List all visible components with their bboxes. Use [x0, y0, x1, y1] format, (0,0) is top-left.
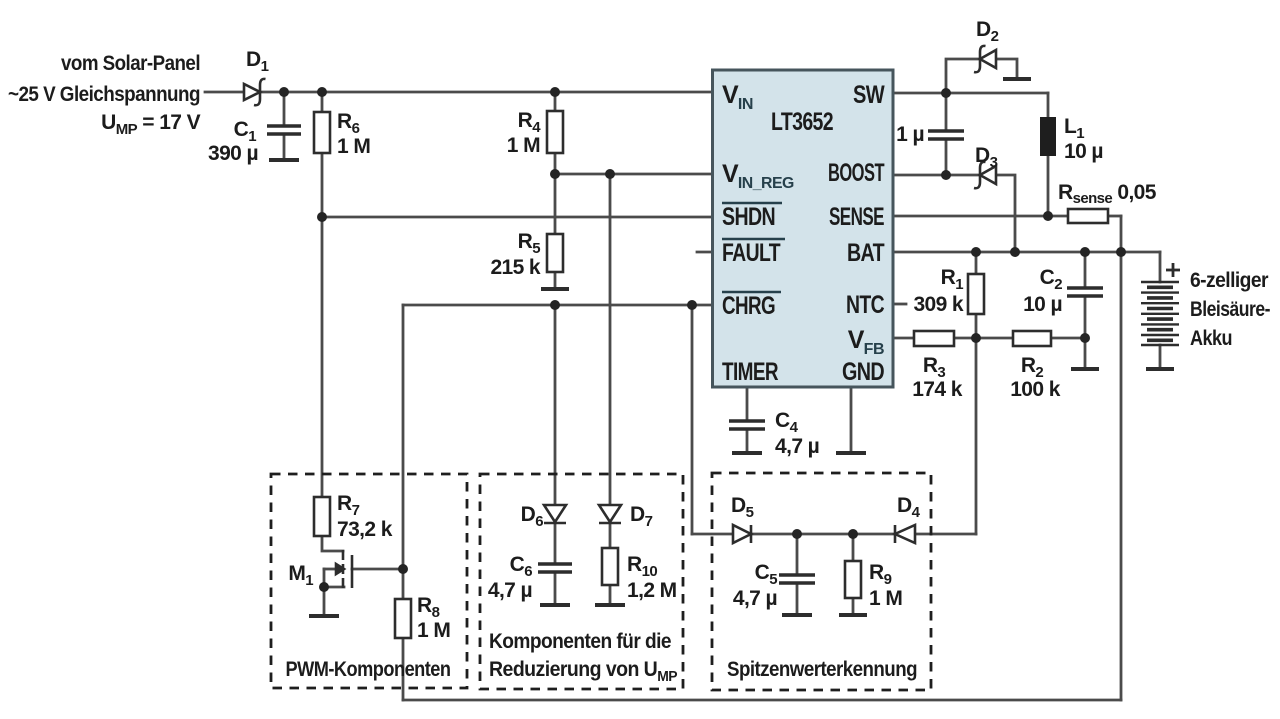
wire C6 bottom to ground: [554, 572, 557, 603]
svg-text:4,7 µ: 4,7 µ: [733, 587, 777, 610]
svg-text:Bleisäure-: Bleisäure-: [1190, 298, 1271, 321]
UMP reduction dashed box: [480, 474, 683, 689]
svg-text:1 M: 1 M: [869, 587, 902, 610]
svg-text:174 k: 174 k: [912, 378, 962, 401]
svg-text:10 µ: 10 µ: [1023, 293, 1062, 316]
wire VFB pin to R3: [893, 337, 914, 340]
wire C5 node down: [796, 534, 799, 575]
wire D7 cathode to R10: [609, 523, 612, 548]
wire node to C1 top: [283, 92, 286, 126]
battery 6-cell: [1141, 282, 1179, 345]
ground under R9: [839, 613, 867, 617]
IC U1 pin CHRG overline: [722, 291, 781, 293]
wire SW node up to D2: [946, 59, 980, 93]
wire D3 anode down to BAT line: [996, 175, 1015, 252]
wire M1 source: [324, 586, 344, 589]
wire C5 bottom to ground: [796, 583, 799, 613]
node C5 junction: [792, 529, 802, 539]
ground under C5: [782, 613, 812, 617]
ground under battery: [1146, 367, 1174, 371]
wire VIN_REG line to pin: [555, 173, 712, 176]
capacitor 1u bootstrap: [928, 131, 964, 139]
wire GND pin to ground: [850, 387, 853, 451]
IC U1 pin SHDN overline: [722, 202, 782, 204]
capacitor C4: [729, 421, 765, 429]
wire M1 gate to R8 node: [352, 568, 403, 571]
svg-text:215 k: 215 k: [490, 256, 540, 279]
capacitor C2: [1067, 288, 1103, 296]
wire BAT line: [893, 251, 1160, 254]
PWM components dashed box: [271, 474, 467, 688]
capacitor C5: [779, 575, 815, 583]
node solar input junction: [279, 87, 289, 97]
wire D6 cathode to C6: [554, 523, 557, 564]
wire Rsense right corner: [1108, 215, 1121, 218]
battery plus sign: [1166, 263, 1180, 277]
svg-text:~25 V Gleichspannung: ~25 V Gleichspannung: [8, 83, 200, 106]
wire R4 bottom to VIN_REG node: [554, 153, 557, 174]
wire D2 anode to ground: [996, 59, 1017, 77]
node SHDN R6 junction: [317, 212, 327, 222]
wire R1 bottom to VFB node: [975, 314, 978, 338]
wire SW node to bootstrap cap: [945, 93, 948, 131]
svg-text:1 M: 1 M: [337, 135, 370, 158]
resistor R4: [547, 111, 563, 153]
svg-text:FAULT: FAULT: [722, 239, 780, 267]
node CHRG D6 branch junction: [550, 300, 560, 310]
wire C2 bottom through R2 node to ground: [1084, 296, 1087, 367]
svg-text:Reduzierung von UMP: Reduzierung von UMP: [489, 658, 678, 685]
node BAT Rsense junction: [1116, 247, 1126, 257]
wire R8 node to R8 top: [402, 569, 405, 599]
svg-text:100 k: 100 k: [1010, 378, 1060, 401]
capacitor C6: [538, 564, 572, 572]
svg-text:TIMER: TIMER: [722, 358, 779, 386]
wire battery bottom to ground: [1159, 345, 1162, 367]
resistor Rsense: [1068, 209, 1108, 223]
resistor R5: [547, 234, 563, 272]
ground under C2: [1071, 367, 1099, 371]
diode D3 (schottky): [974, 162, 996, 188]
svg-text:10 µ: 10 µ: [1064, 140, 1103, 163]
node BAT D3 junction: [1010, 247, 1020, 257]
wire C1 bottom to ground: [283, 134, 286, 159]
node VFB R1 junction: [971, 333, 981, 343]
wire M1 body arrow line: [324, 568, 336, 571]
wire D1 cathode to VIN pin: [260, 91, 712, 94]
wire CHRG node down to D5: [691, 305, 694, 534]
transistor M1 (MOSFET): [336, 550, 352, 588]
resistor R1: [968, 274, 984, 314]
ground under GND pin: [836, 451, 866, 455]
svg-text:73,2 k: 73,2 k: [337, 518, 393, 541]
node R4 top junction: [550, 87, 560, 97]
ground for D2: [1003, 77, 1031, 81]
svg-text:SHDN: SHDN: [722, 203, 775, 231]
diode D1 (schottky): [244, 79, 266, 105]
wire FAULT stub: [697, 251, 712, 254]
svg-text:309 k: 309 k: [913, 293, 963, 316]
ground under R10: [595, 603, 625, 607]
svg-text:BOOST: BOOST: [828, 159, 884, 187]
wire SENSE line to Rsense: [893, 215, 1068, 218]
node CHRG D5 branch junction: [687, 300, 697, 310]
wire TIMER to C4: [746, 387, 749, 421]
ground under C6: [540, 603, 570, 607]
wire SW corner to L1: [1047, 93, 1050, 117]
IC U1 pin FAULT overline: [722, 238, 785, 240]
ground under C1: [269, 158, 299, 162]
wire bootstrap cap to BOOST node: [945, 139, 948, 175]
wire bottom rail up to Rsense and BAT node: [1120, 216, 1123, 700]
diode D5: [733, 525, 751, 543]
svg-text:1 M: 1 M: [507, 134, 540, 157]
svg-text:390 µ: 390 µ: [208, 142, 258, 165]
wire M1 body-source vertical to ground: [323, 569, 326, 614]
wire BAT node to R1 top: [975, 252, 978, 274]
resistor R3: [914, 331, 954, 346]
diode D2 (schottky): [974, 46, 996, 72]
wire D5 cathode to D4 anode: [751, 533, 895, 536]
wire CHRG corner down to M1 gate node: [402, 305, 405, 569]
wire M1 drain from R7: [322, 536, 343, 551]
svg-text:1 µ: 1 µ: [896, 123, 924, 146]
wire D5 line from CHRG drop: [692, 533, 733, 536]
wire R10 bottom to ground: [609, 585, 612, 603]
svg-text:BAT: BAT: [847, 239, 884, 267]
node R9 junction: [848, 529, 858, 539]
svg-text:Spitzenwerterkennung: Spitzenwerterkennung: [727, 658, 917, 681]
wire node to R4 top: [554, 92, 557, 111]
resistor R6: [314, 112, 330, 153]
wire VIN_REG node down to R5 top: [554, 174, 557, 234]
svg-text:Komponenten für die: Komponenten für die: [489, 630, 671, 653]
node BAT C2 junction: [1080, 247, 1090, 257]
svg-text:NTC: NTC: [846, 291, 885, 319]
wire BOOST line to D3: [893, 174, 980, 177]
svg-text:6-zelliger: 6-zelliger: [1190, 269, 1268, 292]
svg-text:SW: SW: [853, 81, 885, 109]
node BAT R1 junction: [971, 247, 981, 257]
node BOOST bootstrap junction: [941, 170, 951, 180]
svg-text:CHRG: CHRG: [722, 292, 775, 320]
capacitor C1: [267, 126, 301, 134]
wire solar input to D1: [205, 91, 244, 94]
resistor R2: [1013, 331, 1051, 346]
svg-text:Akku: Akku: [1190, 327, 1232, 350]
wire D4 cathode to VFB drop: [915, 533, 976, 536]
wire C4 to ground: [746, 429, 749, 451]
wire node to R6 top: [321, 92, 324, 112]
wire R6 bottom through SHDN node down to R7 top: [321, 153, 324, 497]
resistor R10: [602, 548, 618, 585]
ground under R5: [541, 287, 569, 291]
wire R9 bottom to ground: [852, 598, 855, 613]
svg-text:PWM-Komponenten: PWM-Komponenten: [286, 658, 451, 681]
wire VIN_REG node down to D7: [609, 174, 612, 505]
diode D7: [599, 505, 621, 523]
wire BAT node to C2 top: [1084, 252, 1087, 288]
node M1 source body junction: [319, 582, 329, 592]
wire R9 node down: [852, 534, 855, 561]
wire R2 to C2 node: [1051, 337, 1085, 340]
inductor L1: [1040, 117, 1056, 156]
svg-text:1,2 M: 1,2 M: [627, 579, 677, 602]
wire R5 bottom to ground: [554, 272, 557, 287]
wire SW line: [893, 92, 1048, 95]
node SW bootstrap junction: [941, 88, 951, 98]
wire SHDN line: [322, 216, 712, 219]
wire CHRG line: [403, 304, 712, 307]
node R2 C2 junction: [1080, 333, 1090, 343]
ground under C4: [732, 451, 762, 455]
resistor R7: [314, 497, 330, 536]
node VIN_REG R4 junction: [550, 169, 560, 179]
wire L1 bottom to SENSE node: [1047, 156, 1050, 216]
node R6 top junction: [317, 87, 327, 97]
IC U1 LT3652 body: [713, 70, 894, 387]
wire BAT corner down to battery: [1159, 252, 1162, 282]
svg-text:LT3652: LT3652: [771, 108, 833, 136]
svg-text:GND: GND: [842, 358, 884, 386]
node M1 gate R8 junction: [398, 564, 408, 574]
svg-text:1 M: 1 M: [417, 619, 450, 642]
wire VFB node down to D4 line: [975, 338, 978, 534]
node VIN_REG D7 branch junction: [605, 169, 615, 179]
peak detection dashed box: [712, 473, 931, 690]
svg-text:SENSE: SENSE: [829, 203, 884, 231]
node SENSE L1 junction: [1043, 211, 1053, 221]
svg-text:vom Solar-Panel: vom Solar-Panel: [61, 52, 200, 75]
resistor R9: [845, 561, 861, 598]
ground under M1: [309, 614, 339, 618]
svg-text:4,7 µ: 4,7 µ: [488, 579, 532, 602]
resistor R8: [395, 599, 411, 638]
wire bottom rail: [403, 699, 1121, 702]
diode D4: [895, 525, 915, 543]
diode D6: [544, 505, 566, 523]
wire R3 to VFB node: [954, 337, 1013, 340]
wire R8 bottom to bottom rail: [402, 638, 405, 700]
wire NTC stub: [893, 303, 906, 306]
wire CHRG node down to D6: [554, 305, 557, 505]
svg-text:4,7 µ: 4,7 µ: [775, 435, 819, 458]
